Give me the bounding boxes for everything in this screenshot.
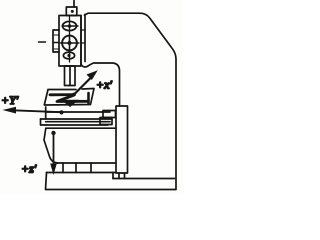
table slab left end: [45, 107, 47, 119]
pulley circle 2: [62, 36, 77, 51]
saddle top edge: [46, 121, 110, 123]
head cap: [66, 7, 77, 16]
zigzag diagonal: [58, 96, 73, 102]
+X' arrow shaft: [74, 79, 90, 95]
column outline: [46, 13, 177, 189]
pulley 1 axis line: [62, 25, 78, 27]
cap dot: [71, 10, 74, 13]
zigzag bottom bar: [57, 100, 88, 103]
+Z' arrow shaft: [53, 135, 55, 164]
+Y' arrow head: [3, 107, 17, 114]
pulley ellipse 3: [63, 52, 74, 59]
slide foot stub: [119, 173, 125, 179]
quill outer: [65, 66, 76, 86]
column front rounded face: [81, 63, 120, 106]
knee strip top: [58, 162, 117, 164]
base top left line: [47, 172, 117, 174]
base top right line: [113, 178, 175, 180]
tick between edges y43: [81, 42, 85, 44]
knee left profile: [44, 128, 58, 163]
column left edge v1: [80, 16, 82, 65]
strip divider 1: [62, 163, 64, 173]
+Y' arrow shaft: [13, 110, 62, 112]
Y origin dot: [59, 110, 63, 114]
column left edge v2: [84, 15, 86, 62]
zigzag right vertical: [87, 93, 90, 103]
pulley 1 dot: [68, 24, 72, 28]
pulley 2 dot: [68, 41, 72, 45]
pulley 3 dot: [67, 54, 70, 57]
strip divider 3: [90, 163, 92, 173]
base step: [112, 173, 114, 179]
svg-text:+z′: +z′: [21, 162, 37, 176]
+X' arrow head: [87, 70, 98, 80]
vertical slide tall rect: [116, 106, 128, 173]
knob handle dash left: [39, 41, 46, 43]
+Z' arrow head: [50, 164, 57, 176]
crosshair v: [69, 35, 71, 52]
drawbar tick on top: [73, 1, 75, 8]
knob tick upper: [54, 34, 59, 36]
knob tick lower: [54, 48, 59, 50]
zigzag solid triangle: [61, 100, 79, 107]
knee top edge: [46, 127, 116, 129]
spindle centerline: [69, 17, 71, 62]
tabletop parallelogram: [44, 89, 94, 106]
right bracket box 2: [100, 118, 112, 125]
quill mid line: [69, 66, 71, 86]
pulley ellipse 1: [63, 21, 77, 30]
head body: [59, 16, 81, 67]
table slab top edge: [46, 111, 110, 113]
svg-text:+x′: +x′: [96, 78, 112, 92]
right bracket box 1: [103, 111, 116, 118]
node dot on table (X origin): [72, 93, 76, 97]
saddle step left: [41, 119, 47, 125]
knob handle dash right: [53, 42, 59, 44]
svg-text:+Y′: +Y′: [1, 93, 19, 107]
saddle bottom edge: [46, 124, 108, 126]
table slab bottom edge: [41, 118, 112, 120]
Z origin dot: [51, 131, 55, 135]
zigzag top bar: [50, 93, 74, 96]
crosshair h: [61, 42, 80, 44]
left knob bracket: [53, 30, 59, 52]
tick between edges y30: [81, 29, 85, 31]
strip divider 2: [75, 163, 77, 173]
